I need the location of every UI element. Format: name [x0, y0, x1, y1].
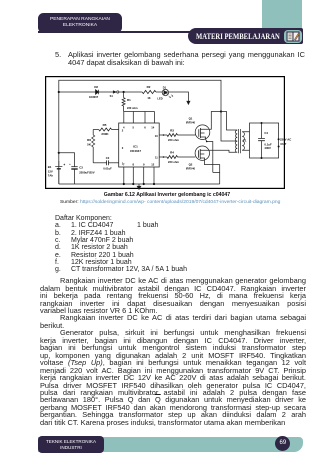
- svg-text:200K: 200K: [101, 131, 109, 135]
- node: battery junction: [58, 151, 60, 153]
- wire: sources join: [213, 171, 220, 173]
- transformer T1 primary: [235, 130, 237, 152]
- svg-text:R3: R3: [170, 128, 174, 132]
- wire: [156, 91, 162, 93]
- svg-text:0.01uF: 0.01uF: [103, 166, 112, 170]
- svg-text:R1: R1: [127, 98, 131, 102]
- wire to supply arrow: [169, 92, 189, 101]
- svg-text:R5: R5: [103, 123, 107, 127]
- svg-text:4: 4: [123, 125, 125, 129]
- svg-text:C3: C3: [79, 165, 83, 169]
- svg-text:CD4047: CD4047: [130, 148, 141, 152]
- banner icon square: [284, 30, 302, 43]
- wire: pin11 to gate: [159, 156, 167, 158]
- battery B1 12V: [58, 161, 60, 166]
- svg-text:IRF540: IRF540: [186, 120, 196, 124]
- wire: pin10 to gate: [159, 134, 167, 136]
- svg-text:R6: R6: [87, 138, 91, 142]
- wire: Q2 source down: [205, 160, 220, 184]
- svg-text:14: 14: [151, 125, 154, 129]
- paragraphs: [60, 277, 306, 284]
- svg-text:C2: C2: [106, 156, 110, 160]
- header tab: PENERAPAN RANGKAIAN ELEKTRONIKA: [38, 13, 122, 33]
- IC IC1 CD4047: [119, 123, 160, 167]
- book+pencil icon: [286, 31, 300, 42]
- wire: battery branch: [59, 152, 75, 166]
- node: supply/drain junction: [220, 110, 222, 112]
- node: R1 junction: [123, 90, 125, 92]
- svg-text:D2: D2: [94, 85, 98, 89]
- footer teal band: [38, 437, 303, 452]
- wire: Q1 source down: [206, 139, 213, 172]
- wire: left supply rail: [58, 92, 60, 184]
- transistor Q2 IRF540: [195, 146, 209, 160]
- switch S1: [113, 90, 116, 92]
- item 5 text: [55, 51, 61, 58]
- svg-text:7Ah: 7Ah: [48, 173, 54, 177]
- svg-text:IC1: IC1: [133, 144, 138, 148]
- svg-text:5: 5: [133, 125, 135, 129]
- transformer T1 secondary: [242, 131, 244, 149]
- wire: [99, 91, 114, 93]
- capacitor C4 0.1uF 400V: [261, 123, 263, 138]
- circuit schematic: CD4047 inverter: [45, 76, 285, 189]
- svg-text:S1: S1: [110, 94, 114, 98]
- LED D1: [162, 89, 168, 95]
- wire: output loop: [250, 123, 279, 158]
- wire: VDD rail to IC pins: [124, 110, 155, 112]
- svg-text:T1: T1: [243, 138, 247, 142]
- svg-text:1K: 1K: [147, 95, 150, 99]
- svg-text:+: +: [69, 162, 71, 166]
- svg-text:6: 6: [144, 125, 146, 129]
- svg-text:10: 10: [155, 133, 158, 137]
- wire: +12V top rail: [59, 80, 221, 111]
- node: D2 branch junction: [58, 90, 60, 92]
- svg-text:2200uF/25V: 2200uF/25V: [79, 170, 95, 174]
- wire: Q2 drain to primary bottom: [209, 150, 237, 152]
- svg-text:7: 7: [123, 162, 125, 166]
- svg-text:11: 11: [155, 155, 158, 159]
- resistor R4 220 ohm (gate Q2): [167, 155, 178, 158]
- resistor R2 1K: [142, 90, 156, 93]
- page number circle: [275, 436, 290, 451]
- schematic frame: [46, 76, 285, 188]
- capacitor C2 0.01uF: [93, 161, 106, 163]
- diode D2 1N4007: [96, 89, 99, 94]
- svg-text:D1: D1: [163, 85, 167, 89]
- resistor R3 220 ohm (gate Q1): [167, 133, 178, 136]
- svg-text:3: 3: [122, 146, 124, 150]
- sumber: [60, 200, 320, 205]
- resistor R1 220 ohm: [123, 92, 125, 98]
- footer navy tab: [38, 436, 104, 453]
- svg-text:R2: R2: [147, 84, 151, 88]
- svg-text:C4: C4: [264, 131, 268, 135]
- svg-text:IRF540: IRF540: [186, 166, 196, 170]
- svg-text:OUT: OUT: [280, 142, 286, 146]
- svg-text:R4: R4: [170, 150, 174, 154]
- resistor R5 200K: [93, 128, 99, 130]
- wire: centre tap from +12V: [221, 111, 237, 141]
- wire: ground bottom rail: [59, 183, 220, 185]
- svg-text:12: 12: [151, 162, 154, 166]
- transistor Q1 IRF540: [195, 124, 210, 139]
- svg-text:+: +: [63, 163, 65, 167]
- teal corner block: [262, 0, 302, 44]
- svg-text:220 ohm: 220 ohm: [168, 160, 180, 164]
- daftar komponen: [55, 215, 112, 222]
- capacitor C3 2200uF/25V: [71, 165, 77, 167]
- banner: MATERI PEMBELAJARAN: [188, 28, 303, 45]
- wire: control branch: [59, 91, 96, 93]
- caption: [47, 192, 287, 198]
- svg-text:8: 8: [133, 162, 135, 166]
- wires: IC ground pins: [124, 167, 154, 184]
- wire: secondary to output: [242, 131, 249, 149]
- wire: [119, 91, 142, 93]
- wire: to primary top: [221, 111, 237, 130]
- svg-text:230V AC: 230V AC: [280, 137, 291, 141]
- svg-text:1N4007: 1N4007: [89, 94, 99, 98]
- svg-text:B1: B1: [48, 164, 52, 168]
- header navy rule: [38, 31, 210, 33]
- svg-text:9: 9: [143, 162, 145, 166]
- resistor R6 5K: [92, 129, 94, 135]
- svg-text:LED: LED: [157, 96, 162, 100]
- svg-text:400V: 400V: [264, 146, 271, 150]
- svg-text:220 ohm: 220 ohm: [168, 138, 180, 142]
- transformer T1 core: [239, 129, 241, 153]
- node: output 230V AC: [278, 138, 280, 140]
- ground: [138, 184, 140, 186]
- svg-text:220 ohm: 220 ohm: [127, 105, 138, 109]
- wire: Q1 drain up to node: [210, 111, 221, 129]
